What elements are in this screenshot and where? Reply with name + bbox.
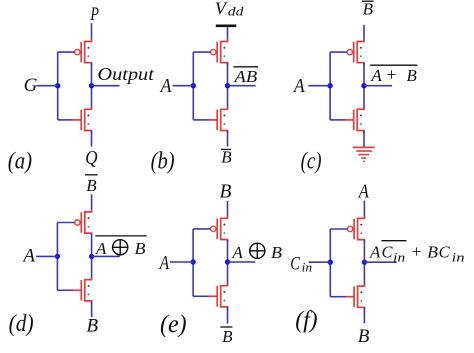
svg-text:A: A [158, 252, 170, 274]
svg-text:B: B [86, 316, 98, 337]
svg-text:dd: dd [228, 4, 244, 19]
wire A to pmos drain [363, 201, 365, 219]
wire gate bus to pmos bubble [57, 222, 74, 224]
wire A input [308, 85, 330, 87]
wire gate bus to pmos bubble [193, 228, 210, 230]
wire gate bus to nmos gate [58, 119, 73, 121]
wire gate bus vertical [57, 52, 59, 120]
pmos transistor M1a [75, 39, 92, 65]
label A xor B with overline (XNOR output) [95, 236, 147, 258]
wire Vdd to pmos drain [227, 27, 229, 41]
terminal label B-bar [221, 148, 232, 167]
wire output node to nmos drain [91, 86, 93, 110]
wire gate bus to nmos gate [330, 296, 345, 298]
wire output horizontal [92, 85, 120, 87]
pmos transistor M1c [347, 39, 364, 65]
svg-text:B: B [221, 148, 232, 167]
wire gate bus to pmos bubble [58, 51, 75, 53]
wire nmos source to B [91, 301, 93, 317]
wire Cin input [309, 261, 331, 263]
svg-text:C: C [382, 243, 393, 262]
node gate junction c [327, 83, 332, 88]
label A xor B (XOR output) [231, 243, 282, 262]
wire nmos source to B [363, 307, 365, 323]
terminal label B-bar top [85, 175, 98, 195]
wire nmos source to Q [91, 131, 93, 147]
svg-text:AB: AB [233, 67, 257, 86]
wire output node to nmos drain [227, 262, 229, 286]
wire B to pmos drain [227, 201, 229, 218]
svg-text:B: B [271, 243, 283, 262]
wire pmos source to output node [91, 233, 93, 256]
wire gate bus vertical [192, 52, 194, 120]
node gate junction e [190, 259, 195, 264]
wire output node to nmos drain [91, 256, 93, 279]
wire output node to nmos drain [363, 86, 365, 110]
svg-text:A: A [21, 246, 35, 267]
svg-text:A: A [369, 243, 381, 262]
svg-text:B: B [363, 0, 374, 19]
pmos transistor M1f [348, 216, 365, 242]
wire pmos source to output node [363, 240, 365, 263]
wire A input [173, 85, 194, 87]
wire A input [170, 261, 193, 263]
wire pmos source to output node [91, 63, 93, 86]
wire output horizontal [92, 255, 120, 257]
wire output horizontal [228, 85, 256, 87]
svg-text:(a): (a) [8, 148, 32, 174]
svg-text:B: B [407, 66, 418, 85]
wire nmos source to B-bar [227, 131, 229, 147]
svg-text:A: A [95, 239, 107, 258]
wire output horizontal [364, 85, 392, 87]
svg-text:P: P [90, 4, 100, 25]
power rail Vdd bar [216, 24, 237, 27]
wire gate bus to nmos gate [330, 119, 345, 121]
node output junction d [89, 254, 94, 259]
node output junction c [361, 83, 366, 88]
nmos transistor M2b [208, 107, 228, 133]
wire pmos source to output node [227, 240, 229, 263]
svg-text:Q: Q [85, 148, 97, 169]
svg-text:in: in [452, 250, 465, 264]
wire gate bus to nmos gate [193, 119, 208, 121]
svg-text:(d): (d) [9, 311, 34, 337]
svg-text:Output: Output [97, 64, 155, 84]
wire gate bus to pmos bubble [193, 51, 210, 53]
svg-text:+: + [386, 64, 396, 84]
nmos transistor M2a [72, 107, 92, 133]
label ACin-bar + BCin (carry output) [369, 241, 464, 265]
wire P to pmos drain [91, 23, 93, 42]
wire pmos source to output node [227, 63, 229, 86]
node output junction f [362, 260, 367, 265]
wire G input [37, 85, 58, 87]
svg-text:A: A [370, 66, 382, 85]
node output junction a [89, 83, 94, 88]
wire gate bus to pmos bubble [330, 51, 347, 53]
svg-text:+: + [412, 242, 422, 261]
svg-text:B: B [222, 327, 233, 346]
svg-text:A: A [357, 182, 369, 203]
svg-text:A: A [159, 75, 172, 97]
wire output node to nmos drain [227, 86, 229, 110]
wire output horizontal [364, 261, 396, 263]
svg-text:C: C [290, 253, 300, 274]
wire gate bus vertical [329, 229, 331, 297]
nmos transistor M2f [345, 284, 365, 310]
svg-text:C: C [439, 243, 451, 262]
terminal label Cin [290, 253, 312, 274]
terminal label B-bar top [362, 0, 374, 19]
wire output horizontal [228, 261, 256, 263]
label AB with overline [233, 67, 258, 86]
ground symbol [353, 147, 375, 161]
svg-text:A: A [292, 75, 305, 97]
nmos transistor M2c [345, 107, 365, 133]
pmos transistor M1b [211, 39, 228, 65]
svg-text:B: B [86, 176, 97, 195]
svg-text:B: B [427, 243, 439, 262]
wire pmos source to output node [363, 63, 365, 86]
power label Vdd [215, 0, 244, 19]
svg-text:(f): (f) [295, 308, 317, 334]
svg-text:(e): (e) [160, 311, 187, 338]
node output junction b [225, 83, 230, 88]
wire gate bus vertical [56, 223, 58, 291]
pmos transistor M1d [75, 209, 92, 235]
node output junction e [225, 259, 230, 264]
node gate junction a [55, 83, 60, 88]
svg-text:(c): (c) [301, 148, 322, 174]
wire gate bus vertical [329, 52, 331, 120]
svg-text:G: G [24, 75, 38, 96]
wire gate bus vertical [192, 229, 194, 296]
wire B-bar to pmos drain [91, 194, 93, 212]
wire nmos source to ground [363, 131, 365, 148]
nmos transistor M2e [208, 283, 228, 309]
wire nmos source to B-bar [227, 307, 229, 324]
wire A input [36, 255, 57, 257]
wire gate bus to nmos gate [193, 295, 208, 297]
svg-text:B: B [358, 326, 370, 347]
terminal label B-bar bottom [220, 327, 233, 346]
svg-text:(b): (b) [151, 148, 175, 174]
nmos transistor M2d [72, 277, 92, 303]
svg-text:A: A [231, 243, 243, 262]
svg-text:B: B [219, 182, 231, 203]
node gate junction f [328, 260, 333, 265]
wire output node to nmos drain [363, 262, 365, 286]
wire B-bar to pmos drain [363, 25, 365, 42]
label A+B with overline (NOR output) [370, 64, 417, 84]
node gate junction d [55, 254, 60, 259]
wire gate bus to nmos gate [57, 289, 72, 291]
pmos transistor M1e [211, 216, 228, 242]
svg-text:B: B [135, 239, 147, 258]
wire gate bus to pmos bubble [330, 228, 347, 230]
node gate junction b [191, 83, 196, 88]
